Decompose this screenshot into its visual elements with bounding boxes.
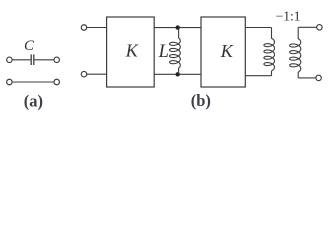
terminal a-top-left	[7, 57, 13, 63]
wire	[298, 26, 316, 28]
terminal a-top-right	[54, 57, 60, 63]
wire	[34, 59, 53, 61]
node bottom junction	[176, 72, 180, 76]
terminal a-bottom-right	[54, 79, 60, 85]
wire	[12, 59, 30, 61]
svg-text:C: C	[24, 38, 35, 54]
box K2	[201, 17, 245, 87]
terminal a-bottom-left	[7, 79, 13, 85]
transformer secondary coil	[290, 27, 301, 78]
wire	[87, 27, 107, 29]
box K1	[107, 17, 155, 87]
svg-text:(a): (a)	[24, 92, 43, 111]
transformer primary coil	[264, 28, 275, 76]
svg-text:(b): (b)	[191, 91, 211, 110]
terminal b-in-top	[81, 25, 87, 31]
wire	[87, 73, 107, 75]
wire	[154, 27, 201, 29]
inductor L	[170, 28, 181, 75]
wire	[245, 75, 271, 77]
wire	[12, 81, 54, 83]
terminal b-out-bottom	[316, 75, 322, 81]
svg-text:L: L	[158, 42, 169, 62]
terminal b-in-bottom	[81, 71, 87, 77]
svg-text:−1:1: −1:1	[276, 8, 301, 23]
terminal b-out-top	[317, 25, 323, 31]
svg-text:K: K	[125, 40, 139, 60]
node top junction	[176, 25, 180, 29]
wire	[245, 27, 271, 29]
svg-text:K: K	[220, 41, 234, 61]
wire	[154, 73, 201, 75]
wire	[298, 77, 316, 79]
capacitor C	[30, 54, 32, 65]
